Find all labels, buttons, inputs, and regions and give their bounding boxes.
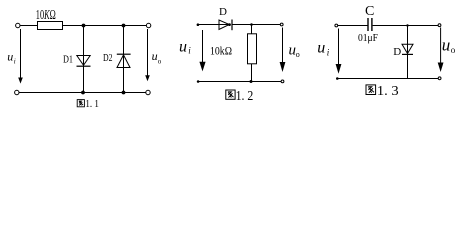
svg-text:i: i (14, 58, 16, 66)
voltage arrow uo circuit2 (280, 28, 286, 73)
svg-text:i: i (327, 48, 330, 58)
wire resistor top lead circuit2 (251, 25, 253, 34)
diode D triangle circuit3 (402, 44, 413, 53)
wire end mini terminal top-right circuit3 (438, 24, 441, 27)
node junction diode top circuit3 (406, 24, 408, 26)
diode D cathode bar circuit3 (402, 53, 413, 55)
caption tu glyph circuit3 (366, 85, 376, 95)
svg-text:u: u (317, 40, 325, 57)
wire end dot top-left circuit3 (335, 24, 338, 27)
voltage arrow ui circuit3 (336, 29, 342, 74)
capacitor C right plate (371, 18, 373, 31)
svg-text:1. 2: 1. 2 (236, 89, 254, 104)
wire diode cathode lead circuit3 (407, 54, 409, 78)
wire anode lead D2 bottom (123, 68, 125, 93)
svg-text:C: C (365, 4, 374, 19)
voltage arrow uo circuit1 (145, 29, 150, 81)
svg-text:u: u (7, 50, 13, 64)
node junction top of D2 (122, 24, 126, 28)
wire bottom rail circuit2 (199, 81, 282, 83)
wire bottom rail circuit1 (19, 92, 146, 94)
wire resistor bottom lead circuit2 (251, 64, 253, 82)
diode D2 cathode bar (117, 53, 131, 55)
svg-text:i: i (188, 46, 191, 56)
svg-text:u: u (179, 38, 187, 55)
terminal bottom-right circuit1 (146, 90, 150, 94)
svg-text:1. 3: 1. 3 (377, 84, 399, 99)
node junction bottom of D2 (122, 91, 126, 95)
svg-text:D2: D2 (103, 53, 113, 64)
svg-text:u: u (442, 36, 451, 55)
wire end dot bottom-left circuit2 (197, 80, 200, 83)
wire end mini terminal bottom-right circuit2 (281, 80, 284, 83)
svg-text:1. 1: 1. 1 (85, 98, 99, 110)
resistor R 10K circuit1 (38, 22, 63, 30)
caption tu glyph circuit1 (77, 100, 84, 107)
svg-text:10kΩ: 10kΩ (210, 44, 232, 58)
diode D1 triangle (77, 56, 90, 66)
capacitor C left plate (367, 18, 369, 31)
terminal input top-left circuit1 (16, 23, 20, 27)
wire end mini terminal top-right circuit2 (280, 23, 283, 26)
diode D triangle circuit2 (219, 20, 229, 30)
svg-text:10KΩ: 10KΩ (36, 7, 56, 22)
svg-text:D1: D1 (63, 54, 73, 65)
wire bottom rail circuit3 (338, 78, 440, 80)
svg-text:o: o (451, 45, 455, 55)
diode D apex dot circuit2 (228, 23, 231, 26)
wire top rail right segment circuit3 (373, 25, 439, 27)
voltage arrow ui circuit2 (199, 30, 205, 71)
svg-text:D: D (393, 46, 401, 58)
wire cathode lead D2 top (123, 26, 125, 68)
svg-text:o: o (158, 58, 162, 66)
voltage arrow uo circuit3 (438, 28, 444, 73)
svg-text:D: D (219, 6, 227, 18)
diode D cathode bar circuit2 (231, 20, 233, 31)
resistor 10k circuit2 (248, 34, 257, 64)
wire end dot bottom-left circuit3 (336, 77, 339, 80)
node junction bottom of D1 (81, 91, 85, 95)
terminal bottom-left circuit1 (15, 90, 19, 94)
svg-text:01μF: 01μF (358, 32, 378, 44)
wire top rail right segment circuit2 (232, 24, 281, 26)
wire top rail left segment circuit3 (338, 25, 369, 27)
node junction resistor top circuit2 (250, 23, 253, 26)
wire top rail left segment circuit2 (199, 24, 230, 26)
wire top rail left segment circuit1 (20, 25, 37, 27)
voltage arrow ui circuit1 (18, 29, 23, 84)
diode D1 cathode bar (77, 65, 91, 67)
wire cathode lead D1 (83, 66, 85, 92)
wire end dot top-left circuit2 (197, 23, 200, 26)
caption tu glyph circuit2 (226, 90, 235, 99)
node junction top of D1 (82, 24, 86, 28)
node junction resistor bottom circuit2 (250, 80, 253, 83)
wire anode lead D1 (83, 26, 85, 67)
wire diode anode lead circuit3 (407, 26, 409, 55)
terminal output top-right circuit1 (146, 23, 150, 27)
diode D2 triangle (117, 55, 130, 68)
wire end mini terminal bottom-right circuit3 (438, 77, 441, 80)
svg-text:u: u (152, 49, 158, 63)
wire top rail right segment circuit1 (63, 25, 147, 27)
svg-text:o: o (296, 50, 300, 59)
